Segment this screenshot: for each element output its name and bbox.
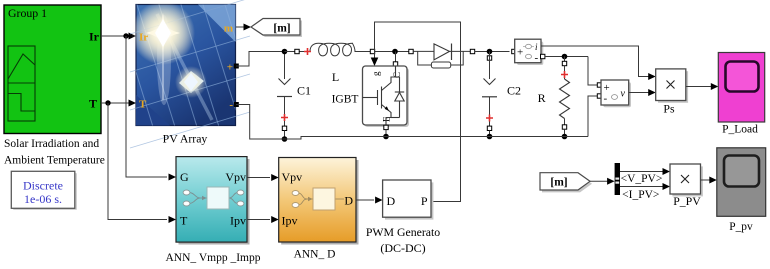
wire i output to Ps product — [541, 46, 656, 80]
svg-text:-: - — [604, 93, 608, 105]
label P_PV — [673, 194, 701, 208]
svg-text:Ps: Ps — [663, 101, 675, 115]
scope P_pv — [717, 148, 766, 217]
label PV Array — [163, 131, 208, 145]
svg-text:P_PV: P_PV — [673, 194, 701, 208]
svg-text:[m]: [m] — [550, 177, 567, 189]
svg-text:PWM Generato: PWM Generato — [366, 225, 440, 239]
From tag [m] — [540, 173, 592, 193]
junction C2 bottom on rail — [487, 134, 493, 140]
svg-text:C2: C2 — [507, 84, 521, 98]
svg-text:Ir: Ir — [89, 30, 100, 44]
svg-text:R: R — [538, 91, 546, 105]
PV Array block — [112, 0, 264, 148]
wire m output to Goto tag — [236, 24, 251, 31]
wire PV - output down to bottom rail — [236, 105, 282, 140]
svg-text:m: m — [224, 23, 233, 35]
product block P_PV — [670, 164, 703, 196]
wire top rail diode to C2 node and current measurement — [475, 51, 510, 53]
product block Ps — [656, 69, 688, 103]
wire T branch down to ANN T input — [108, 103, 176, 223]
svg-text:C1: C1 — [297, 84, 311, 98]
wire V_PV signal to P_PV — [620, 168, 670, 175]
wire Vpv: ANN_Vmpp to ANN_D — [247, 174, 279, 181]
wire D: ANN_D to PWM Generator — [356, 197, 383, 204]
svg-text:P_Load: P_Load — [722, 124, 758, 136]
svg-text:[m]: [m] — [273, 22, 290, 34]
svg-text:-: - — [535, 52, 539, 64]
svg-text:Solar Irradiation and: Solar Irradiation and — [4, 138, 99, 150]
gate wire PWM P output to IGBT g — [371, 22, 461, 202]
label C2 — [507, 84, 521, 98]
svg-text:Ir: Ir — [139, 32, 148, 44]
junction R top node — [562, 54, 568, 60]
label C1 — [297, 84, 311, 98]
wire Ps to P_Load scope — [686, 83, 719, 90]
wire Ir branch down to ANN G input — [126, 36, 176, 181]
svg-text:T: T — [180, 214, 188, 228]
junction C1 top on rail — [282, 49, 288, 55]
diode D1 with snubber — [409, 44, 475, 69]
voltage measurement block Vload — [597, 80, 631, 107]
svg-text:+: + — [227, 62, 233, 74]
svg-text:g: g — [371, 71, 381, 76]
svg-text:G: G — [180, 170, 189, 184]
capacitor C1 — [277, 52, 292, 140]
current measurement block Iload — [512, 39, 545, 65]
svg-text:T: T — [139, 99, 147, 111]
wire I_PV signal to P_PV — [620, 183, 670, 190]
svg-text:P_pv: P_pv — [729, 221, 753, 233]
scope P_Load — [718, 53, 764, 123]
svg-text:Vpv: Vpv — [225, 170, 246, 184]
bus selector — [615, 163, 620, 195]
svg-text:PV Array: PV Array — [163, 131, 208, 145]
inductor L — [295, 43, 375, 56]
Goto tag [m] — [251, 19, 302, 38]
wire node down to IGBT C port — [393, 52, 397, 67]
wire top rail inductor to IGBT collector node — [375, 51, 411, 53]
svg-text:P: P — [421, 194, 428, 208]
svg-text:Discrete: Discrete — [23, 178, 63, 192]
label <I_PV> — [622, 189, 659, 201]
junction on T wire — [105, 100, 110, 105]
svg-text:<I_PV>: <I_PV> — [622, 189, 659, 201]
junction IGBT collector node — [392, 49, 398, 55]
label P_pv — [729, 221, 753, 233]
wire From tag to bus selector — [590, 178, 615, 185]
wire current measurement minus to R node — [545, 56, 588, 58]
label Ps — [663, 101, 675, 115]
svg-text:ANN_ Vmpp _Impp: ANN_ Vmpp _Impp — [166, 252, 261, 264]
svg-text:+: + — [517, 47, 523, 59]
transistor IGBT block — [363, 66, 410, 130]
wire T: Group1 to PV Array — [101, 100, 136, 107]
svg-text:Vpv: Vpv — [282, 170, 303, 184]
bottom rail wire — [282, 137, 588, 140]
label <V_PV> — [621, 173, 663, 185]
junction E on bottom rail — [383, 134, 389, 140]
svg-text:Ipv: Ipv — [282, 214, 298, 228]
svg-text:D: D — [387, 194, 396, 208]
svg-text:ANN_ D: ANN_ D — [294, 248, 336, 260]
wire R node to voltage measurement plus — [588, 57, 597, 86]
svg-text:Group 1: Group 1 — [8, 6, 47, 20]
junction on Ir wire — [123, 33, 128, 38]
ANN_Vmpp_Impp block — [176, 157, 250, 245]
wire IGBT E down to bottom rail — [385, 130, 387, 137]
svg-text:v: v — [621, 89, 626, 100]
label ANN_ Vmpp _Impp — [166, 252, 261, 264]
svg-text:L: L — [332, 70, 339, 84]
svg-text:-: - — [229, 99, 233, 111]
ANN_D block — [279, 158, 359, 245]
label Solar Irradiation and Ambient Temperature — [4, 138, 105, 167]
junction C1 bottom on rail — [282, 136, 288, 142]
label IGBT — [332, 94, 359, 106]
resistor R — [560, 57, 570, 137]
wire bottom rail to voltage measurement minus — [588, 96, 597, 137]
subsystem Group 1 (Solar Irradiation and Ambient Temperature source) — [4, 5, 101, 134]
wire Ipv: ANN_Vmpp to ANN_D — [247, 216, 279, 223]
svg-text:Ambient Temperature: Ambient Temperature — [4, 155, 105, 167]
capacitor C2 — [482, 52, 497, 137]
label L — [332, 70, 339, 84]
junction R bottom on rail — [562, 134, 568, 140]
wire v output to Ps product — [629, 89, 656, 96]
junction C2 top node — [487, 49, 493, 55]
label ANN_ D — [294, 248, 336, 260]
wire P_PV to P_pv scope — [701, 177, 717, 184]
wire Ir: Group1 to PV Array — [101, 33, 136, 40]
label PWM Generato (DC-DC) — [366, 225, 440, 255]
svg-text:IGBT: IGBT — [332, 94, 359, 106]
label P_Load — [722, 124, 758, 136]
label R — [538, 91, 546, 105]
wire top rail C1 to inductor — [285, 51, 310, 53]
svg-text:1e-06 s.: 1e-06 s. — [24, 192, 62, 206]
svg-text:<V_PV>: <V_PV> — [621, 173, 663, 185]
svg-text:Ipv: Ipv — [230, 214, 246, 228]
svg-text:D: D — [344, 194, 353, 208]
wire PV + output up to DC bus top rail — [236, 52, 282, 67]
svg-text:(DC-DC): (DC-DC) — [380, 241, 425, 255]
svg-text:T: T — [89, 97, 97, 111]
PWM Generator block — [383, 180, 434, 220]
powergui Discrete 1e-06 s. — [11, 171, 77, 210]
